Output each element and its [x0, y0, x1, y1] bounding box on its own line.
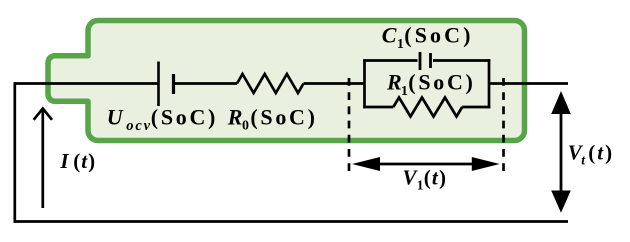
RC box top edge right segment — [433, 59, 490, 62]
capacitor C1 left plate — [419, 52, 422, 70]
Vt arrow bottom head — [551, 191, 571, 213]
Vt arrow top head — [551, 91, 571, 114]
RC parallel box right edge — [488, 59, 491, 108]
resistor R0 zigzag — [237, 74, 304, 93]
svg-text:Vt(t): Vt(t) — [568, 141, 612, 168]
current arrow I(t) open head — [34, 109, 52, 120]
voltage source U_ocv long plate — [157, 62, 160, 107]
RC box top edge left segment — [363, 59, 417, 62]
V1 arrow right head — [472, 157, 500, 171]
wire: top left segment to battery plate — [14, 82, 158, 85]
wire: left vertical of outer loop — [13, 82, 16, 223]
svg-text:R0(SoC): R0(SoC) — [227, 105, 318, 134]
RC box bottom edge right segment — [462, 106, 490, 109]
V1 arrow left head — [352, 157, 380, 171]
wire: RC box to right end — [489, 82, 568, 85]
svg-text:I(t): I(t) — [59, 149, 95, 173]
capacitor C1 right plate — [429, 53, 432, 68]
dashed line right (V1 measurement) — [502, 78, 505, 177]
wire: battery to resistor R0 — [175, 82, 237, 85]
voltage source U_ocv short plate — [172, 74, 175, 94]
battery cell outline (green rounded body with left terminal bump) — [48, 21, 525, 141]
RC parallel box left edge — [363, 59, 366, 108]
RC box bottom edge left segment — [363, 106, 393, 109]
wire: bottom of outer loop — [14, 220, 568, 223]
wire: resistor R0 to RC box — [304, 82, 365, 85]
svg-text:V1(t): V1(t) — [403, 166, 446, 193]
current arrow I(t) shaft — [41, 110, 44, 208]
resistor R1 zigzag — [393, 98, 462, 117]
Vt double arrow shaft — [560, 110, 563, 194]
V1 double arrow shaft — [378, 163, 474, 166]
dashed line left (V1 measurement) — [348, 78, 351, 177]
